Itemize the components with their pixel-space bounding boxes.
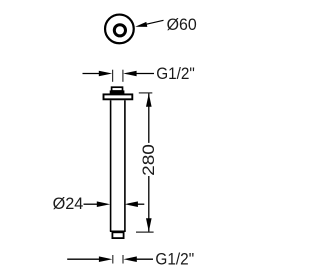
flange plate [104, 94, 133, 99]
top G1/2 left extension tick [112, 70, 114, 82]
svg-text:280: 280 [140, 144, 158, 176]
svg-text:Ø24: Ø24 [53, 195, 84, 213]
top G1/2 left arrowhead [99, 71, 112, 77]
280 dim down arrowhead [146, 218, 152, 231]
svg-text:G1/2": G1/2" [155, 250, 194, 268]
svg-text:G1/2": G1/2" [156, 65, 195, 83]
pipe shoulder step [110, 230, 126, 232]
top G1/2 dimension left tail line [83, 73, 101, 75]
svg-text:Ø60: Ø60 [167, 16, 197, 34]
flange collar [111, 91, 124, 93]
280 dim up arrowhead [146, 93, 152, 106]
Ø24 left tail line [84, 203, 100, 205]
bottom G1/2 left tail line [67, 258, 100, 260]
bottom G1/2 right tail line [136, 258, 153, 260]
leader line to Ø60 label [141, 20, 164, 25]
pipe right wall [124, 100, 126, 231]
leader arrowhead [135, 22, 147, 27]
top-view outer circle (escutcheon Ø60) [105, 15, 134, 44]
280 dim line lower segment [148, 176, 150, 232]
top G1/2 right arrowhead [123, 71, 136, 77]
top G1/2 right tail line [136, 73, 154, 75]
280 dim line upper segment [148, 94, 150, 143]
threaded tip rect [112, 232, 123, 238]
top-view inner ring (pipe bore) [114, 25, 125, 36]
280 dim top tick [139, 92, 153, 94]
pipe left wall [110, 100, 112, 231]
Ø24 right arrowhead [125, 201, 138, 207]
top G1/2 right extension tick [122, 70, 124, 82]
bottom G1/2 left extension tick [112, 255, 114, 264]
flange stub (threaded boss) [112, 87, 123, 91]
bottom G1/2 left arrowhead [99, 256, 112, 262]
Ø24 right tail line [136, 203, 144, 205]
bottom G1/2 right extension tick [122, 255, 124, 264]
280 dim bottom tick [136, 231, 154, 233]
Ø24 left arrowhead [97, 201, 110, 207]
bottom G1/2 right arrowhead [123, 256, 136, 262]
